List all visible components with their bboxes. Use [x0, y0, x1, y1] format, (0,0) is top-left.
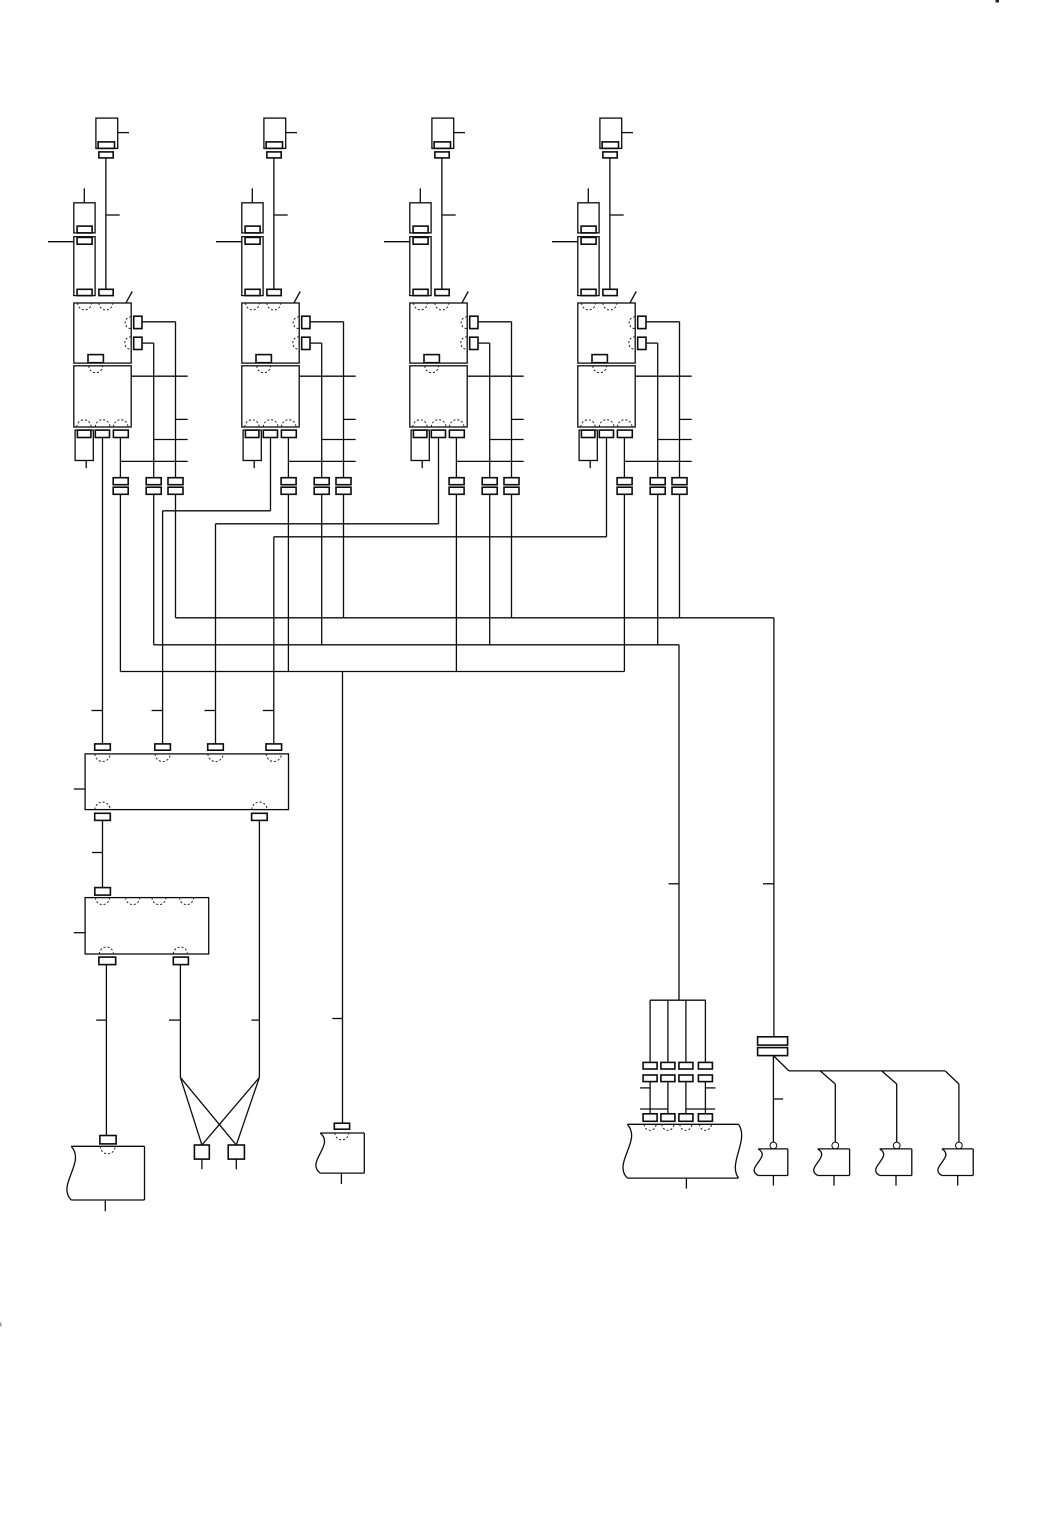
connector CL pin: [100, 1136, 116, 1144]
sensor S3 box: [876, 1149, 912, 1176]
coil T2 lower connector: [267, 289, 281, 295]
harness wire 3 lower: [685, 1082, 687, 1114]
wire K4 w4 lower: [679, 494, 681, 618]
relay K2 coil section: [242, 303, 299, 363]
inline connector JB2: [661, 1062, 675, 1081]
wire relay K4 right stub: [635, 375, 692, 377]
inline connector JB1: [643, 1062, 657, 1081]
inline connector J1c: [168, 478, 183, 495]
coil T3 connector: [435, 152, 449, 158]
wire to sensor S4: [958, 1084, 960, 1142]
ECU U2 box: [85, 898, 209, 954]
inline connector J1b: [146, 478, 161, 495]
wire K3 w2 lower: [455, 494, 457, 671]
wire K1 w2 lower: [119, 494, 121, 671]
coil T1 connector: [99, 152, 113, 158]
relay K3 contact section: [410, 366, 467, 427]
wire resistor R4 left stub: [552, 241, 578, 243]
wire K1 pin3 down: [120, 438, 187, 478]
relay K2 bottom pins: [245, 430, 296, 437]
resistor R1 connector A: [74, 203, 95, 233]
relay K1 coil section: [74, 303, 131, 363]
harness wire 2: [667, 1000, 669, 1062]
sensor S4 box: [938, 1149, 973, 1176]
harness tick d: [686, 1108, 715, 1110]
page mark left: [0, 1323, 2, 1327]
inline connector JB4: [698, 1062, 712, 1081]
coil T3 case: [432, 118, 454, 148]
sensor S3 bubble: [893, 1142, 900, 1149]
wire coil T3 to relay: [442, 158, 456, 289]
ECU U1 top pin 2: [152, 711, 171, 751]
relay K4 bottom pins: [581, 430, 632, 437]
wire resistor R2 left stub: [216, 241, 242, 243]
sensor S1 box: [754, 1149, 788, 1176]
connector CL box: [67, 1146, 145, 1200]
harness wire 4 lower: [704, 1082, 706, 1114]
wire K1 w4 lower: [175, 494, 177, 618]
resistor R1 top stub: [83, 188, 85, 203]
coil T3 lower connector: [435, 289, 449, 295]
inline connector J4c: [672, 478, 687, 495]
coil T4 connector: [603, 152, 617, 158]
terminal box TB2: [228, 1145, 244, 1169]
wire resistor R3 left stub: [384, 241, 410, 243]
resistor R2 connector A: [242, 203, 263, 233]
wire A4 to ECU pin4: [274, 537, 607, 744]
bus w4 net: [176, 618, 774, 1037]
inline connector J3b: [482, 478, 497, 495]
inline connector J4a: [617, 478, 632, 495]
harness tick c: [640, 1108, 668, 1110]
wire coil T1 to relay: [106, 158, 120, 289]
inline connector J4b: [650, 478, 665, 495]
connector pin PB3: [679, 1114, 693, 1122]
wire K1 pin2 down: [102, 438, 104, 744]
relay K3 switch slash: [462, 292, 468, 303]
connector pin PB4: [698, 1114, 712, 1122]
wire K2 w3 lower: [321, 494, 323, 645]
inline connector J2c: [336, 478, 351, 495]
wire K3 pin5: [478, 322, 524, 478]
wire K3 w3 lower: [489, 494, 491, 645]
ECU U1 left stub: [74, 788, 85, 790]
coil T4 case: [600, 118, 622, 148]
inline connector J3c: [504, 478, 519, 495]
harness wire 3: [685, 1000, 687, 1062]
relay K1 switch slash: [126, 292, 132, 303]
wire K2 pin2 down: [270, 438, 272, 511]
wire resistor R1 left stub: [48, 241, 74, 243]
harness wire 1 lower: [649, 1082, 651, 1114]
coil T4 terminal stub: [622, 132, 633, 134]
resistor R2b: [243, 430, 261, 468]
relay K3 bottom pins: [413, 430, 464, 437]
inline connector J1a: [113, 478, 128, 495]
relay K2 right pins: [302, 316, 310, 349]
connector CR box: [623, 1124, 742, 1178]
wire K2 pin6: [310, 343, 356, 478]
wire to sensor S3: [896, 1084, 898, 1142]
wire K3 pin3 down: [456, 438, 523, 478]
coil T2 case: [264, 118, 286, 148]
coil T1 lower connector: [99, 289, 113, 295]
relay K1 contact section: [74, 366, 131, 427]
wire to sensor S2: [834, 1084, 836, 1142]
inline connector J2b: [314, 478, 329, 495]
inline connector JW4: [758, 1037, 788, 1056]
relay K4 right pins: [638, 316, 646, 349]
relay K4 switch slash: [630, 292, 636, 303]
relay K3 coil section: [410, 303, 467, 363]
relay K1 bottom pins: [77, 430, 128, 437]
sensor S4 bubble: [956, 1142, 963, 1149]
resistor R3 connector A: [410, 203, 431, 233]
connector CM box: [316, 1133, 364, 1173]
ECU U1 bottom pin B: [252, 813, 268, 1077]
harness tick b: [705, 1087, 715, 1089]
coil T3 terminal stub: [454, 132, 465, 134]
ECU U1 top pin 4: [263, 711, 282, 751]
inline connector J2a: [281, 478, 296, 495]
sensor S4 stub: [957, 1176, 959, 1186]
coil T1 terminal stub: [118, 132, 129, 134]
sensor S2 box: [814, 1149, 850, 1176]
ECU U2 bottom pin A: [96, 957, 116, 1135]
sensor S2 bubble: [832, 1142, 839, 1149]
relay K4 contact section: [578, 366, 635, 427]
coil T4 lower connector: [603, 289, 617, 295]
wire K2 w4 lower: [343, 494, 345, 618]
wire K2 pin5: [310, 322, 356, 478]
ECU U2 bottom pin B: [169, 957, 188, 1077]
coil T2 connector: [267, 152, 281, 158]
wire K4 pin6: [646, 343, 692, 478]
wire crossover: [180, 1077, 259, 1145]
wire K3 pin6: [478, 343, 524, 478]
connector CL stub: [104, 1200, 106, 1211]
resistor R1b: [75, 430, 93, 468]
wire relay K2 right stub: [299, 375, 356, 377]
resistor R4 top stub: [587, 188, 589, 203]
wire to sensor S1: [773, 1056, 783, 1143]
resistor R1 connector B: [74, 237, 95, 296]
ECU U2 top pin: [95, 888, 111, 896]
connector pin PB1: [643, 1114, 657, 1122]
bus w3 net: [154, 645, 679, 1000]
wire sensor branch: [773, 1056, 959, 1084]
connector CM pin: [334, 1123, 349, 1129]
resistor R3b: [411, 430, 429, 468]
ECU U1 bottom pin A: [92, 813, 110, 887]
wire K2 w2 lower: [287, 494, 289, 671]
wire K1 pin5: [142, 322, 188, 478]
harness tick a: [640, 1087, 650, 1089]
sensor S1 bubble: [770, 1142, 777, 1149]
wire relay K3 right stub: [467, 375, 524, 377]
relay K1 right pins: [134, 316, 142, 349]
wire coil T4 to relay: [610, 158, 624, 289]
resistor R2 connector B: [242, 237, 263, 296]
page mark top: [996, 0, 1000, 3]
resistor R4 connector B: [578, 237, 599, 296]
relay K2 contact section: [242, 366, 299, 427]
ECU U1 top pin 3: [205, 711, 224, 751]
wire K3 pin2 down: [438, 438, 440, 524]
wire K4 pin3 down: [624, 438, 691, 478]
resistor R4 connector A: [578, 203, 599, 233]
harness wire 1: [649, 1000, 651, 1062]
wire K1 pin6: [142, 343, 188, 478]
inline connector JB3: [679, 1062, 693, 1081]
wire coil T2 to relay: [274, 158, 288, 289]
terminal box TB1: [194, 1145, 209, 1169]
resistor R2 top stub: [251, 188, 253, 203]
coil T2 terminal stub: [286, 132, 297, 134]
wire A3 to ECU pin3: [216, 524, 439, 744]
relay K3 right pins: [470, 316, 478, 349]
wire K2 pin3 down: [288, 438, 355, 478]
wire K3 w4 lower: [511, 494, 513, 618]
wire K4 w2 lower: [623, 494, 625, 671]
sensor S1 stub: [772, 1176, 774, 1186]
ECU U2 left stub: [74, 932, 85, 934]
coil T1 case: [96, 118, 118, 148]
wire relay K1 right stub: [131, 375, 188, 377]
sensor S3 stub: [895, 1176, 897, 1186]
ECU U1 top pin 1: [92, 711, 111, 751]
harness wire 4: [704, 1000, 706, 1062]
inline connector J3a: [449, 478, 464, 495]
wire A2 to ECU pin2: [163, 511, 271, 744]
wire K4 pin5: [646, 322, 692, 478]
bus w2 net: [120, 672, 624, 1124]
sensor S2 stub: [833, 1176, 835, 1186]
resistor R3 connector B: [410, 237, 431, 296]
resistor R3 top stub: [419, 188, 421, 203]
wire K4 pin2 down: [606, 438, 608, 537]
wire K4 w3 lower: [657, 494, 659, 645]
connector pin PB2: [661, 1114, 675, 1122]
connector CR stub: [685, 1178, 687, 1189]
harness wire 2 lower: [667, 1082, 669, 1114]
wire K1 w3 lower: [153, 494, 155, 645]
resistor R4b: [579, 430, 597, 468]
relay K4 coil section: [578, 303, 635, 363]
harness top bar: [650, 999, 706, 1001]
relay K2 switch slash: [294, 292, 300, 303]
ECU U1 box: [85, 754, 288, 810]
connector CM stub: [340, 1173, 342, 1184]
